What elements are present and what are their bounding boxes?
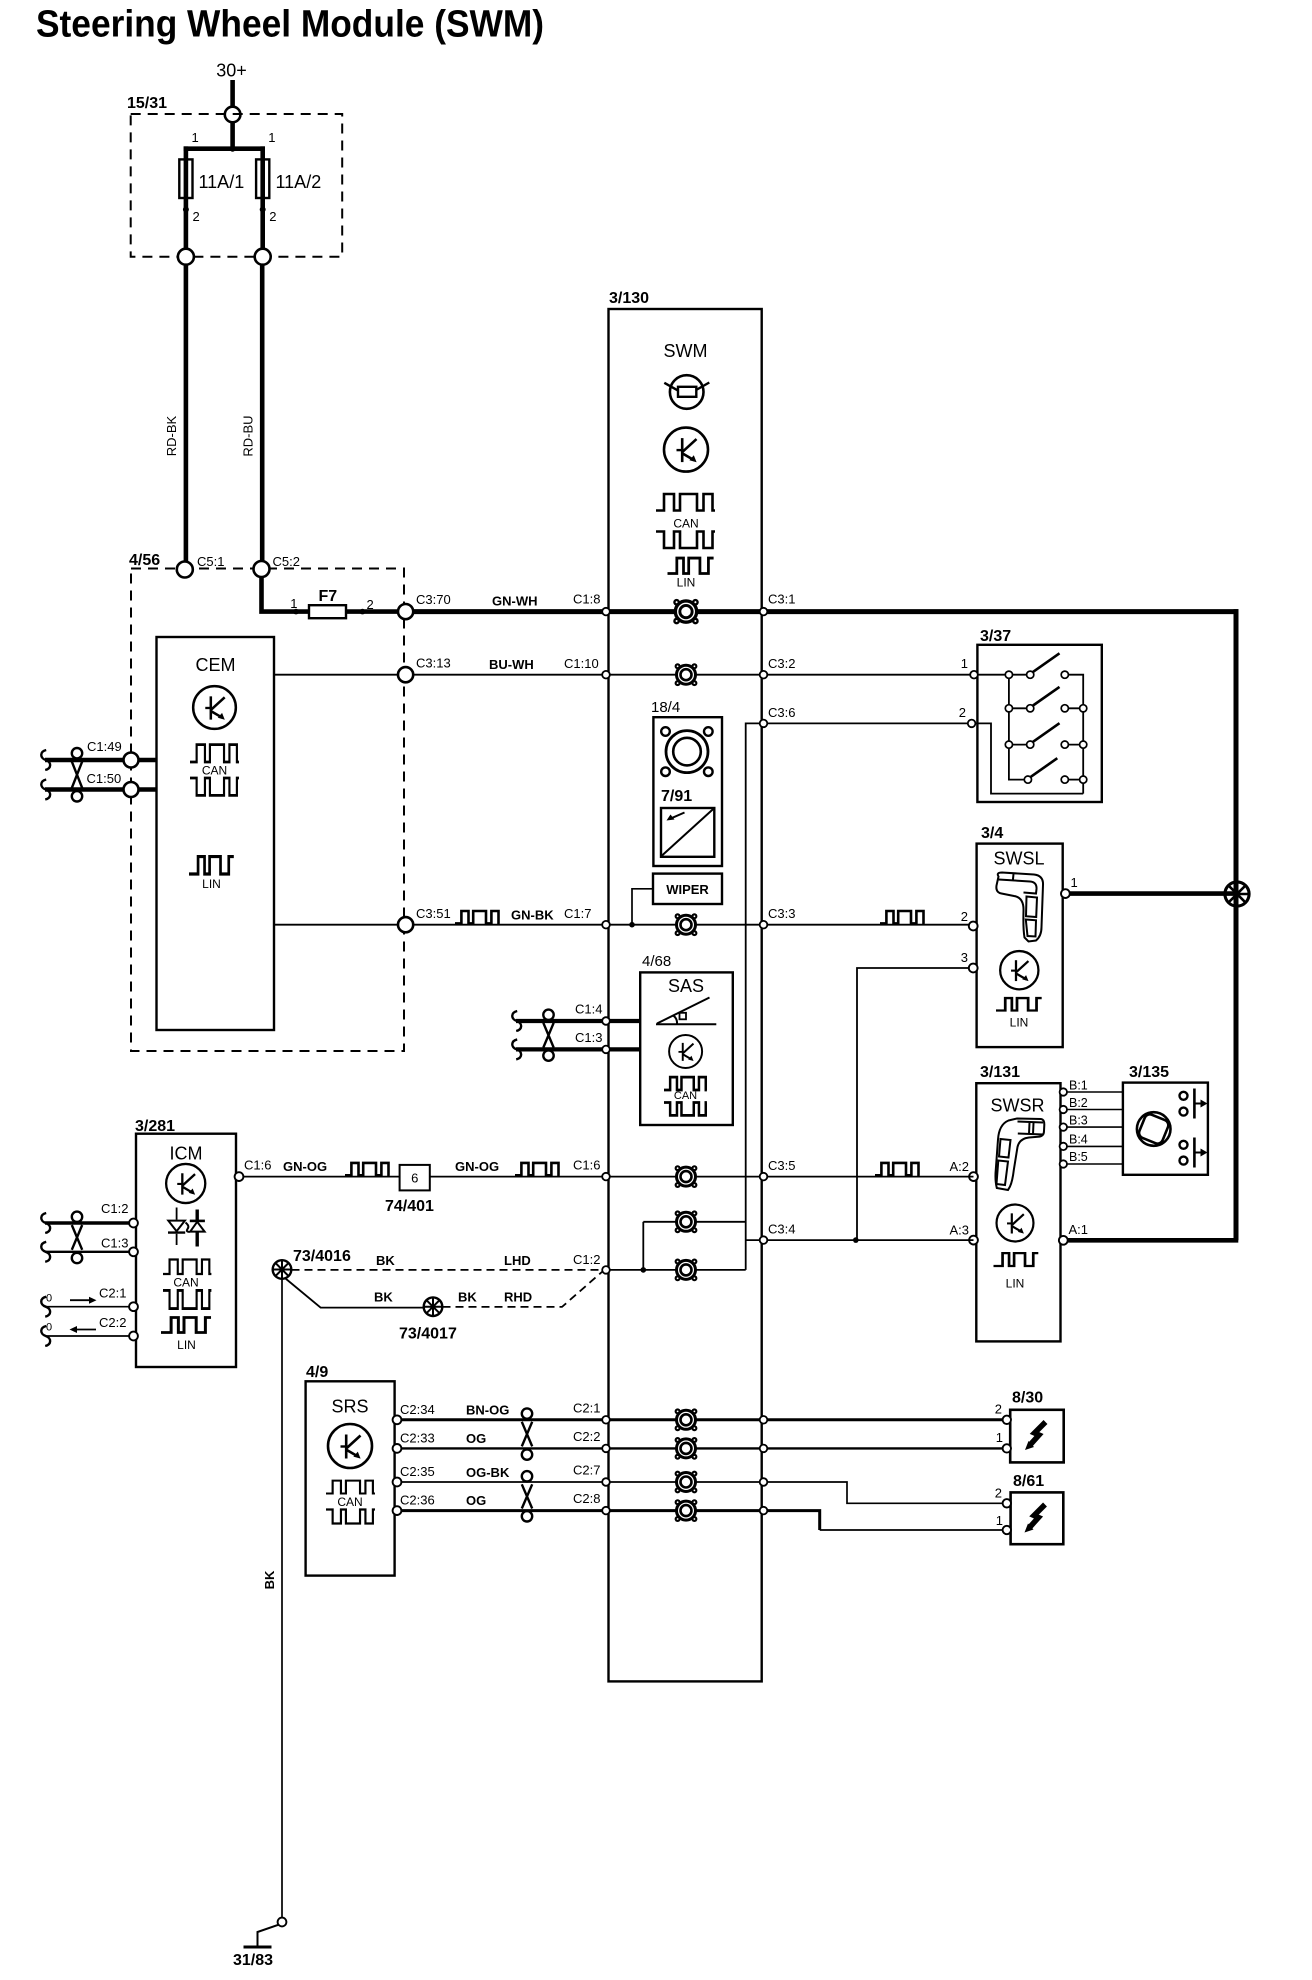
svg-text:C3:2: C3:2 [768,656,795,671]
svg-text:3/131: 3/131 [980,1064,1020,1081]
svg-text:LHD: LHD [504,1253,531,1268]
wire C3:4 to SWSR A:3 [746,1222,974,1243]
svg-text:C5:1: C5:1 [197,554,224,569]
svg-text:CAN: CAN [674,1090,697,1102]
svg-text:C3:51: C3:51 [416,906,451,921]
svg-text:3/135: 3/135 [1129,1064,1169,1081]
svg-text:BK: BK [374,1290,393,1305]
wire OG-BK SRS C2:35 to SWM C2:7 [397,1463,606,1483]
wire RD-BU [241,265,263,562]
module SWM 3/130 [609,290,762,1681]
svg-text:CAN: CAN [173,1276,198,1290]
svg-text:BK: BK [376,1253,395,1268]
svg-text:2: 2 [995,1486,1002,1501]
connector C3:70 [398,592,451,619]
svg-text:ICM: ICM [170,1144,203,1164]
svg-text:18/4: 18/4 [651,699,680,716]
wire stub C1:3 ICM [41,1236,138,1262]
SWM pin C1:8 [602,608,610,616]
ground 31/83 [233,1918,286,1969]
SWM pin C3:1 [760,608,768,616]
svg-text:CEM: CEM [196,655,236,675]
svg-text:2: 2 [193,209,200,224]
squib module 8/61 [1003,1473,1064,1544]
SWM pin C3:2 [760,671,768,679]
WIPER box [653,874,722,904]
SWSR pin A:2 [949,1159,977,1181]
fuse 11A/1 [178,130,244,265]
SWSR stalk icon [995,1119,1044,1191]
SWSR pins B:1-B:5 wires to 3/135 [1067,1092,1123,1164]
svg-text:3: 3 [961,950,968,965]
svg-text:B:4: B:4 [1069,1133,1088,1147]
module SWSL 3/4 [977,825,1063,1047]
3/37 internal switches [972,653,1084,793]
wire stub C1:50 [41,771,156,800]
svg-text:C1:3: C1:3 [101,1236,128,1251]
svg-text:A:1: A:1 [1069,1222,1089,1237]
twisted pair symbol C1:49/C1:50 [72,748,82,802]
SWM pin C3:4 [760,1236,768,1244]
twisted pair symbol ICM C1:2/C1:3 [72,1212,82,1264]
svg-text:C3:13: C3:13 [416,656,451,671]
svg-text:C1:50: C1:50 [87,771,122,786]
svg-text:C1:4: C1:4 [575,1002,602,1017]
svg-text:C2:8: C2:8 [573,1491,600,1506]
fuse F7 [290,588,373,618]
svg-text:31/83: 31/83 [233,1952,273,1969]
svg-text:73/4017: 73/4017 [399,1326,457,1343]
svg-text:C3:70: C3:70 [416,592,451,607]
svg-text:C3:6: C3:6 [768,705,795,720]
connector C5:2 [254,554,300,577]
wire C5:2 to fuse F7 [262,577,407,611]
svg-text:B:1: B:1 [1069,1079,1088,1093]
svg-text:LIN: LIN [177,1338,196,1352]
SWM pin C1:10 [602,671,610,679]
SRS transistor symbol [328,1424,372,1468]
wire GN-BK CEM C3:51 to SWM C1:7 [274,906,606,932]
svg-text:Steering Wheel Module (SWM): Steering Wheel Module (SWM) [36,4,544,46]
svg-text:SWM: SWM [664,341,708,361]
wire GN-WH bus C3:70 to SWM C1:8 [413,592,608,612]
wire GN-OG ICM C1:6 to SWM C1:6 [235,1158,606,1182]
SWSR transistor symbol [997,1205,1034,1242]
3/37 pin 2 [968,720,976,728]
svg-text:LIN: LIN [677,576,696,590]
SWM pin C1:7 [602,921,610,929]
inline connector 74/401 [385,1165,434,1215]
connector C1:49 circle [124,753,139,768]
svg-text:6: 6 [411,1171,418,1186]
SWSR pin A:3 [949,1223,977,1245]
wire bus right vertical [1234,609,1239,1240]
svg-text:2: 2 [995,1402,1002,1417]
CEM CAN symbol [190,745,239,796]
fuse box 15/31 (dashed) [127,95,342,257]
wire stub C2:2 ICM [41,1315,138,1346]
svg-text:C1:8: C1:8 [573,592,600,607]
junction wiper tap [629,889,653,928]
SWM pin C1:2 [602,1266,610,1274]
svg-text:15/31: 15/31 [127,95,167,112]
svg-text:C3:3: C3:3 [768,906,795,921]
wire C2:7 through SWM to 8/61 pin 2 [606,1482,1007,1503]
wire C2:2 through SWM to 8/30 pin 1 [606,1430,1007,1448]
SWSL LIN symbol [996,998,1042,1029]
svg-text:RHD: RHD [504,1290,532,1305]
wire bus bar to fuses [184,146,265,152]
svg-text:WIPER: WIPER [666,882,709,897]
svg-text:11A/2: 11A/2 [276,172,322,192]
svg-text:3/37: 3/37 [980,628,1011,645]
module CEM [157,637,275,1030]
wire BU-WH CEM C3:13 to SWM C1:10 [274,656,606,683]
svg-text:OG: OG [466,1493,486,1508]
wire stub C1:49 [41,739,156,770]
svg-text:GN-BK: GN-BK [511,908,554,923]
svg-text:1: 1 [961,656,968,671]
svg-text:SRS: SRS [331,1397,368,1417]
3/37 pin 1 [970,671,978,679]
twisted pair symbol C2:35/C2:36 [522,1471,532,1521]
svg-text:74/401: 74/401 [385,1198,434,1215]
3/135 contact pair lower [1180,1138,1208,1168]
wire BK RHD dashed diagonal [443,1271,604,1307]
svg-text:C2:1: C2:1 [573,1401,600,1416]
SWM LIN symbol [668,558,714,589]
SRS CAN symbol [326,1481,375,1524]
wire C3:6 internal link and to 3/37 pin 2 [746,705,972,1270]
SWM pin C3:3 [760,921,768,929]
SWM horn symbol [664,375,709,409]
module SRS 4/9 [306,1364,395,1576]
svg-text:A:3: A:3 [949,1223,969,1238]
bus junction connector [1225,882,1249,906]
wire stub C1:3 (twisted) [512,1030,640,1059]
wire C1:8/C3:1 bus through SWM [606,592,1238,612]
svg-text:1: 1 [290,596,297,611]
svg-text:C3:4: C3:4 [768,1222,795,1237]
svg-text:2: 2 [367,597,374,612]
wire BK ground run [262,1279,282,1918]
svg-text:GN-OG: GN-OG [283,1159,327,1174]
SWM pin C3:5 [760,1173,768,1181]
svg-text:SWSL: SWSL [993,849,1044,869]
wire C2:1 through SWM to 8/30 pin 2 [606,1402,1007,1420]
SWM CAN symbol [656,494,715,548]
CEM LIN symbol [189,857,234,891]
SWM pin C1:4 [602,1017,610,1025]
wire OG SRS C2:33 to SWM C2:2 [397,1429,606,1448]
svg-text:BK: BK [458,1290,477,1305]
svg-text:C3:1: C3:1 [768,592,795,607]
svg-text:0: 0 [46,1322,52,1334]
svg-text:OG: OG [466,1431,486,1446]
SWSL pin 3 [961,950,978,972]
wire OG SRS C2:36 to SWM C2:8 [397,1491,606,1511]
svg-text:0: 0 [46,1293,52,1305]
svg-text:1: 1 [996,1430,1003,1445]
clockspring connector on C1:8 line [673,599,699,625]
svg-text:C2:2: C2:2 [99,1315,126,1330]
svg-text:4/56: 4/56 [129,552,160,569]
svg-text:4/9: 4/9 [306,1364,328,1381]
ICM LIN symbol [161,1317,211,1352]
svg-text:RD-BU: RD-BU [241,415,256,456]
wire SWSL pin1 to bus [1070,891,1234,896]
svg-text:C5:2: C5:2 [273,554,300,569]
svg-text:1: 1 [268,130,275,145]
svg-text:BU-WH: BU-WH [489,657,534,672]
svg-text:A:2: A:2 [949,1159,969,1174]
module 18/4 (horn contact) [651,699,722,866]
ICM diode pair symbol [168,1208,205,1247]
svg-text:2: 2 [959,705,966,720]
svg-text:CAN: CAN [202,764,227,778]
fuse 11A/2 [255,130,322,265]
svg-text:GN-WH: GN-WH [492,594,538,609]
internal link wire C3:6 to C1:2 [643,1222,745,1270]
wire RD-BK [164,265,186,562]
SWSL stalk icon [996,873,1043,942]
module SAS 4/68 [640,953,733,1125]
svg-text:C3:5: C3:5 [768,1158,795,1173]
wire SWSL pin3 to A:3 line [857,968,969,1240]
3/135 contact pair upper [1180,1089,1208,1119]
SWSR pin A:1 and wire to bus [1059,1222,1238,1245]
svg-text:CAN: CAN [673,517,698,531]
module 3/135 [1123,1064,1208,1175]
wire C2:8 through SWM to 8/61 pin 1 [606,1511,1007,1530]
3/135 steering wheel icon [1137,1112,1171,1146]
svg-text:LIN: LIN [1010,1016,1029,1030]
module SWSR 3/131 [976,1064,1060,1341]
SWM pin C1:6 [602,1173,610,1181]
svg-text:2: 2 [961,909,968,924]
svg-text:BK: BK [262,1570,277,1589]
svg-text:C1:2: C1:2 [573,1252,600,1267]
svg-text:2: 2 [269,209,276,224]
svg-text:1: 1 [192,130,199,145]
wire stub C1:4 (twisted) [512,1002,640,1032]
CEM transistor symbol [193,686,236,729]
svg-text:LIN: LIN [202,877,221,891]
svg-text:1: 1 [996,1513,1003,1528]
svg-text:C2:7: C2:7 [573,1463,600,1478]
wire stub C2:1 ICM [41,1286,138,1317]
SWM transistor symbol [664,428,708,472]
SWM pin C3:6 [760,720,768,728]
SWM pins right SRS rows [760,1416,768,1514]
wire C1:7/C3:3 to SWSL pin 2 [606,906,973,925]
SWSL pin 2 [961,909,978,930]
splice 73/4017 [399,1297,457,1342]
splice 73/4016 [273,1248,351,1279]
twisted pair symbol C1:4/C1:3 [543,1010,553,1061]
SWSL transistor symbol [1000,951,1038,989]
svg-text:LIN: LIN [1006,1277,1025,1291]
svg-text:C1:3: C1:3 [575,1030,602,1045]
svg-text:3/130: 3/130 [609,290,649,307]
wire stub C1:2 ICM [41,1201,138,1233]
switch module 3/37 [977,628,1101,802]
svg-text:C2:33: C2:33 [400,1431,435,1446]
svg-text:1: 1 [1071,875,1078,890]
svg-text:GN-OG: GN-OG [455,1159,499,1174]
SRS pins [393,1415,402,1515]
wire C1:10/C3:2 to 3/37 pin 1 [606,656,974,675]
ICM CAN symbol [163,1259,211,1308]
svg-text:C2:2: C2:2 [573,1429,600,1444]
SWSL pin 1 [1061,875,1078,898]
svg-text:3/4: 3/4 [981,825,1003,842]
CEM housing 4/56 (dashed) [129,552,404,1051]
svg-text:C2:1: C2:1 [99,1286,126,1301]
svg-text:73/4016: 73/4016 [293,1248,351,1265]
svg-text:C2:35: C2:35 [400,1464,435,1479]
svg-text:C1:10: C1:10 [564,656,599,671]
svg-text:C2:34: C2:34 [400,1402,435,1417]
wire BN-OG SRS C2:34 to SWM C2:1 [397,1401,606,1420]
svg-text:CAN: CAN [337,1495,362,1509]
svg-text:C1:49: C1:49 [87,739,122,754]
svg-text:BN-OG: BN-OG [466,1403,509,1418]
squib module 8/30 [1003,1390,1064,1463]
svg-text:F7: F7 [319,588,338,605]
SAS transistor symbol [669,1035,702,1068]
svg-text:3/281: 3/281 [135,1118,175,1135]
SWM pin C1:3 [602,1046,610,1054]
wire C1:2 LHD internal [606,1267,746,1273]
svg-text:SWSR: SWSR [991,1096,1045,1116]
svg-text:RD-BK: RD-BK [164,415,179,456]
svg-text:11A/1: 11A/1 [199,172,245,192]
ICM transistor symbol [166,1164,205,1203]
twisted pair symbol C2:34/C2:33 [522,1408,532,1459]
SAS CAN symbol [664,1077,707,1115]
svg-text:OG-BK: OG-BK [466,1465,510,1480]
wire C1:6/C3:5 through SWM to SWSR A:2 [606,1158,974,1177]
wire BK solid to splice 73/4017 [286,1279,424,1308]
svg-text:8/30: 8/30 [1012,1390,1043,1407]
18/4 clockspring symbol [661,727,712,776]
connector C1:50 circle [124,782,139,797]
svg-text:8/61: 8/61 [1013,1473,1044,1490]
svg-text:B:3: B:3 [1069,1114,1088,1128]
svg-text:C1:2: C1:2 [101,1201,128,1216]
connector C5:1 [177,554,225,578]
svg-text:C2:36: C2:36 [400,1493,435,1508]
SWM pins C2:1 C2:2 C2:7 C2:8 left [602,1416,610,1514]
svg-text:B:2: B:2 [1069,1096,1088,1110]
7/91 wiper control symbol [661,808,714,857]
svg-text:C1:6: C1:6 [244,1158,271,1173]
svg-text:C1:7: C1:7 [564,906,591,921]
svg-text:SAS: SAS [668,976,704,996]
svg-text:30+: 30+ [216,61,247,81]
node 30+ supply [216,61,247,149]
wire BK LHD dashed to SWM C1:2 [292,1252,603,1270]
SWSR LIN symbol [994,1253,1039,1290]
svg-text:4/68: 4/68 [642,953,671,970]
svg-text:7/91: 7/91 [661,788,692,805]
svg-text:C1:6: C1:6 [573,1158,600,1173]
svg-text:B:5: B:5 [1069,1150,1088,1164]
module ICM 3/281 [135,1118,236,1367]
SAS steering angle symbol [656,998,716,1025]
